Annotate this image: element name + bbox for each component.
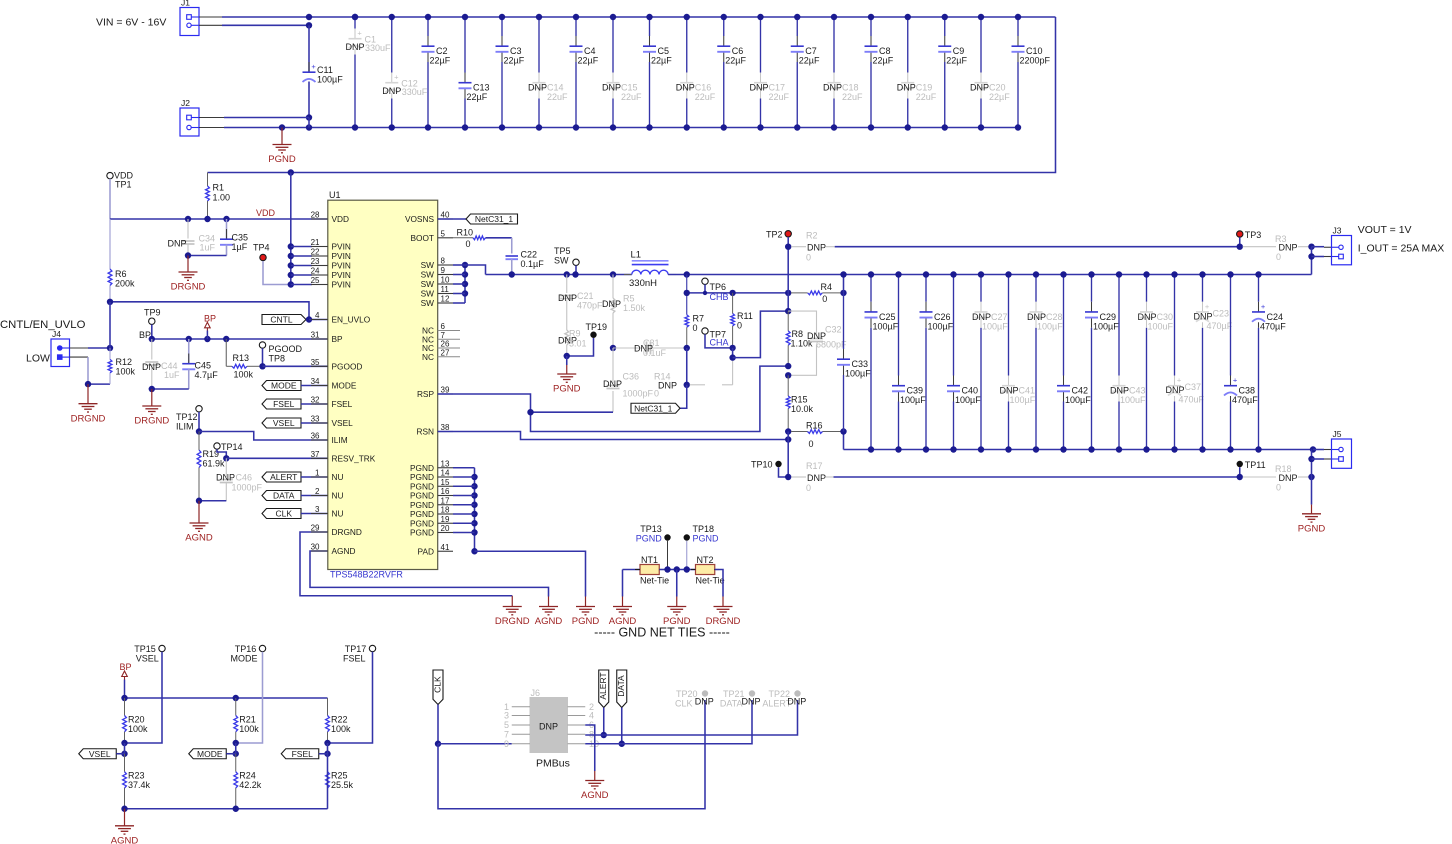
- svg-text:DNP: DNP: [142, 362, 161, 372]
- svg-text:100k: 100k: [331, 724, 351, 734]
- capacitor C17 column: [749, 14, 789, 131]
- svg-text:470uF: 470uF: [1179, 395, 1205, 405]
- capacitor C37 column: [1165, 271, 1204, 452]
- svg-text:TP16: TP16: [235, 644, 257, 654]
- node CHB at TP2 column: [785, 290, 791, 296]
- svg-text:22µF: 22µF: [946, 56, 967, 66]
- svg-text:22uF: 22uF: [695, 92, 716, 102]
- testpoint TP14: [214, 442, 243, 452]
- text LOW: [26, 353, 50, 365]
- svg-text:AGND: AGND: [111, 836, 139, 844]
- svg-text:30: 30: [311, 543, 320, 552]
- capacitor C43 column: [1110, 271, 1146, 452]
- wire SW pin links: [453, 265, 465, 303]
- svg-text:35: 35: [311, 358, 320, 367]
- flag MODE bottom: [189, 749, 236, 759]
- svg-text:100µF: 100µF: [900, 395, 926, 405]
- svg-text:PVIN: PVIN: [332, 261, 351, 271]
- svg-text:PGOOD: PGOOD: [332, 361, 363, 371]
- wire J4 pin1 to R12: [88, 347, 110, 349]
- capacitor C10 column: [1012, 14, 1051, 131]
- svg-text:AGND: AGND: [332, 546, 356, 556]
- wire J3 pin2 link: [1312, 256, 1339, 258]
- svg-text:R10: R10: [457, 228, 474, 238]
- wire divider top rail: [125, 697, 328, 699]
- svg-text:C25: C25: [879, 312, 896, 322]
- svg-text:DATA: DATA: [616, 675, 626, 697]
- svg-text:10: 10: [441, 276, 450, 285]
- svg-text:R11: R11: [737, 311, 753, 321]
- capacitor C15 column: [602, 14, 642, 131]
- svg-text:C35: C35: [232, 233, 249, 243]
- svg-text:C18: C18: [842, 83, 859, 93]
- wire CLK drop: [437, 705, 439, 744]
- node BP R13: [223, 336, 229, 342]
- testpoint TP3: [1237, 230, 1262, 240]
- svg-text:R8: R8: [792, 329, 804, 339]
- svg-text:J4: J4: [52, 329, 61, 339]
- node ALERT: [601, 732, 607, 738]
- svg-text:C37: C37: [1185, 382, 1202, 392]
- wire C44-C45 bottom: [152, 388, 189, 390]
- svg-text:0: 0: [466, 239, 471, 249]
- svg-text:TP5: TP5: [554, 246, 571, 256]
- svg-text:CNTL/EN_UVLO: CNTL/EN_UVLO: [0, 319, 86, 331]
- svg-text:+: +: [1233, 376, 1238, 385]
- svg-text:J6: J6: [531, 688, 541, 698]
- wire TP16 stem: [236, 652, 263, 743]
- svg-text:VSEL: VSEL: [273, 418, 295, 428]
- svg-text:TP2: TP2: [766, 230, 783, 240]
- svg-text:40: 40: [441, 211, 450, 220]
- svg-text:NU: NU: [332, 472, 344, 482]
- svg-text:61.9k: 61.9k: [203, 459, 226, 469]
- wire R12 bottom link: [88, 383, 110, 385]
- svg-text:100k: 100k: [234, 370, 254, 380]
- svg-text:MODE: MODE: [271, 381, 297, 391]
- svg-text:NU: NU: [332, 509, 344, 519]
- svg-text:C30: C30: [1157, 312, 1174, 322]
- svg-text:C17: C17: [769, 83, 786, 93]
- capacitor C9 column: [938, 14, 967, 131]
- svg-text:22µF: 22µF: [873, 56, 894, 66]
- svg-text:22µF: 22µF: [725, 56, 746, 66]
- wire TP14 stem: [217, 449, 226, 458]
- node DATA: [619, 741, 625, 747]
- node NT TP13: [664, 566, 670, 572]
- node R20 bottom: [121, 740, 127, 757]
- svg-text:ALERT: ALERT: [598, 672, 608, 699]
- node R5 column top: [610, 271, 616, 277]
- svg-text:PGND: PGND: [410, 528, 434, 538]
- svg-text:100µF: 100µF: [845, 369, 871, 379]
- svg-text:Net-Tie: Net-Tie: [696, 576, 725, 586]
- svg-text:C16: C16: [695, 83, 712, 93]
- text VOUT: [1358, 224, 1412, 236]
- svg-text:C41: C41: [1019, 386, 1036, 396]
- capacitor C38 column: [1224, 271, 1258, 452]
- svg-text:3: 3: [315, 505, 320, 514]
- connector J1: [180, 0, 199, 36]
- resistor R18 DNP: [1243, 464, 1312, 493]
- node CHB at R7: [684, 290, 690, 296]
- svg-text:C19: C19: [916, 83, 933, 93]
- svg-text:VOSNS: VOSNS: [405, 214, 435, 224]
- ground AGND under R19: [185, 501, 213, 544]
- svg-text:3.01: 3.01: [569, 339, 587, 349]
- svg-text:100k: 100k: [116, 367, 136, 377]
- svg-text:C22: C22: [521, 250, 538, 260]
- svg-text:TP8: TP8: [269, 354, 286, 364]
- svg-text:C27: C27: [991, 312, 1008, 322]
- capacitor C23 column: [1193, 271, 1232, 452]
- svg-text:TP1: TP1: [115, 180, 132, 190]
- capacitor C36 DNP: [603, 348, 654, 412]
- resistor R15: [786, 375, 813, 431]
- svg-text:----- GND NET TIES -----: ----- GND NET TIES -----: [594, 626, 730, 640]
- text GND NET TIES: [594, 626, 730, 640]
- connector J5: [1332, 429, 1352, 468]
- svg-text:TP11: TP11: [1245, 460, 1266, 470]
- resistor R10: [453, 228, 512, 250]
- flag CNTL: [262, 315, 309, 325]
- testpoint TP12: [176, 406, 202, 432]
- svg-text:ALERT: ALERT: [270, 472, 297, 482]
- wire TP17 stem: [328, 652, 373, 743]
- svg-text:6800pF: 6800pF: [816, 340, 847, 350]
- op-amp U1 TPS548B22RVFR: [311, 190, 460, 580]
- svg-text:BP: BP: [204, 314, 216, 324]
- svg-text:CLK: CLK: [275, 509, 292, 519]
- resistor R17 DNP: [791, 461, 833, 493]
- wire J5 column: [1311, 450, 1313, 505]
- svg-text:TP10: TP10: [751, 460, 773, 470]
- svg-text:DNP: DNP: [382, 86, 401, 96]
- wire NetC31 drop: [680, 385, 687, 408]
- svg-text:NetC31_1: NetC31_1: [634, 403, 673, 413]
- svg-text:1.50k: 1.50k: [623, 303, 646, 313]
- svg-text:1µF: 1µF: [232, 242, 248, 252]
- svg-text:38: 38: [441, 423, 450, 432]
- testpoint TP16: [231, 644, 266, 664]
- svg-text:PGND: PGND: [268, 154, 296, 165]
- svg-text:VIN = 6V - 16V: VIN = 6V - 16V: [96, 17, 166, 29]
- wire PGND bus: [453, 468, 478, 555]
- svg-text:32: 32: [311, 396, 320, 405]
- svg-text:I_OUT = 25A MAX: I_OUT = 25A MAX: [1358, 243, 1444, 255]
- svg-text:TP17: TP17: [345, 644, 367, 654]
- node L1 out: [684, 271, 690, 277]
- testpoint TP1: [107, 171, 134, 190]
- svg-text:0: 0: [654, 389, 659, 399]
- svg-text:DNP: DNP: [970, 83, 989, 93]
- testpoint TP10: [751, 460, 782, 470]
- node RSP C36 tap: [527, 409, 533, 415]
- wire SW elbow: [465, 265, 486, 275]
- svg-text:0: 0: [822, 294, 827, 304]
- capacitor C21 DNP: [558, 275, 603, 321]
- node J5 gnd tap: [1308, 474, 1314, 480]
- svg-text:TP19: TP19: [586, 322, 608, 332]
- wire VDD line: [110, 218, 328, 220]
- wire TP13 stem: [667, 541, 669, 570]
- capacitor C41 column: [999, 271, 1035, 452]
- capacitor C34 DNP: [167, 219, 215, 256]
- svg-text:PVIN: PVIN: [332, 280, 351, 290]
- wire TP7 stem: [705, 334, 733, 348]
- svg-text:22uF: 22uF: [769, 92, 790, 102]
- node bottom rail at C11 column: [306, 124, 312, 130]
- ground DRGND under J4: [71, 384, 106, 424]
- wire J4 pin2 stub: [70, 356, 89, 358]
- svg-text:C5: C5: [658, 46, 670, 56]
- text CNTL/EN_UVLO: [0, 319, 86, 331]
- capacitor C4 column: [570, 14, 599, 131]
- svg-text:DNP: DNP: [972, 312, 991, 322]
- ground DRGND net-tie: [706, 597, 741, 628]
- capacitor C13 column: [459, 14, 490, 131]
- svg-text:DNP: DNP: [787, 697, 806, 707]
- svg-text:DRGND: DRGND: [495, 616, 530, 627]
- node RSN junction: [785, 436, 791, 442]
- resistor R6: [108, 219, 135, 302]
- svg-text:C9: C9: [953, 46, 965, 56]
- svg-text:1uF: 1uF: [200, 243, 216, 253]
- wire TP2 column: [787, 237, 789, 311]
- wire PGOOD to pin35: [263, 365, 328, 367]
- node TP3: [1237, 244, 1243, 250]
- svg-text:C21: C21: [577, 291, 594, 301]
- wire TP15 stem: [125, 652, 163, 743]
- node R7 bottom: [684, 345, 690, 351]
- svg-text:DNP: DNP: [749, 83, 768, 93]
- flag MODE: [262, 381, 328, 391]
- connector J2: [180, 98, 199, 136]
- svg-text:37: 37: [311, 450, 320, 459]
- capacitor C11: [303, 62, 344, 88]
- wire AGND net-tie drop: [622, 570, 624, 597]
- svg-text:22uF: 22uF: [621, 92, 642, 102]
- node BP C45: [186, 336, 192, 342]
- resistor R8: [786, 311, 813, 366]
- svg-text:TP6: TP6: [710, 282, 727, 292]
- svg-text:R1: R1: [213, 183, 225, 193]
- svg-text:SW: SW: [421, 270, 435, 280]
- wire TP6 stem: [704, 284, 706, 293]
- svg-text:CHA: CHA: [710, 338, 729, 348]
- svg-text:20: 20: [441, 524, 450, 533]
- wire PVIN bus: [290, 173, 292, 285]
- svg-text:TP12: TP12: [176, 412, 198, 422]
- wire VOUT bottom rail: [844, 449, 1314, 451]
- svg-text:15: 15: [441, 478, 450, 487]
- svg-text:C3: C3: [510, 46, 522, 56]
- svg-text:9: 9: [441, 266, 446, 275]
- svg-text:PGND: PGND: [693, 534, 720, 544]
- node rail to J5: [1310, 446, 1316, 452]
- svg-text:8: 8: [441, 257, 446, 266]
- flag VSEL bottom: [79, 749, 125, 759]
- capacitor C19 column: [897, 14, 937, 131]
- svg-text:DNP: DNP: [1279, 473, 1298, 483]
- resistor R13: [226, 339, 262, 380]
- svg-text:VDD: VDD: [332, 214, 350, 224]
- ground PGND input: [268, 128, 296, 166]
- capacitor C20 column: [970, 14, 1010, 131]
- svg-text:BP: BP: [120, 662, 132, 672]
- node R22 bottom: [324, 740, 330, 757]
- svg-text:R20: R20: [128, 715, 145, 725]
- node J3 pin2 tap: [1308, 253, 1314, 259]
- svg-text:14: 14: [441, 469, 450, 478]
- svg-text:PMBus: PMBus: [536, 758, 570, 770]
- wire BP net: [152, 338, 328, 340]
- svg-text:DNP: DNP: [602, 299, 621, 309]
- svg-text:6: 6: [441, 322, 446, 331]
- svg-text:2200pF: 2200pF: [1020, 56, 1051, 66]
- svg-text:4: 4: [315, 311, 320, 320]
- node AGND R19: [196, 498, 202, 504]
- node VDD at C35: [223, 216, 229, 222]
- wire C36 bottom to RSP: [531, 411, 614, 413]
- svg-text:25.5k: 25.5k: [331, 780, 354, 790]
- testpoint TP9: [139, 308, 161, 341]
- wire VIN top rail: [222, 16, 1056, 18]
- wire CLK to J6 pin9: [438, 743, 512, 745]
- wire TP8 stem: [262, 348, 264, 366]
- svg-text:ILIM: ILIM: [332, 435, 348, 445]
- svg-text:MODE: MODE: [231, 654, 258, 664]
- wire SW line: [486, 274, 632, 276]
- svg-text:41: 41: [441, 543, 450, 552]
- svg-text:DNP: DNP: [807, 473, 826, 483]
- svg-text:SW: SW: [421, 279, 435, 289]
- svg-text:RESV_TRK: RESV_TRK: [332, 453, 376, 463]
- svg-text:J5: J5: [1333, 429, 1342, 439]
- resistor R20: [123, 698, 148, 743]
- svg-text:C36: C36: [623, 372, 640, 382]
- node C11 top: [306, 22, 312, 28]
- testpoint TP15: [134, 644, 165, 664]
- svg-text:CNTL: CNTL: [270, 315, 292, 325]
- svg-text:CLK: CLK: [432, 676, 442, 693]
- svg-text:22uF: 22uF: [547, 92, 568, 102]
- testpoint TP22 DNP: [762, 689, 806, 709]
- node EN_UVLO pin: [306, 316, 312, 322]
- svg-text:33: 33: [311, 415, 320, 424]
- resistor R9 DNP: [558, 320, 587, 356]
- node TP11: [1237, 474, 1243, 480]
- svg-text:470µF: 470µF: [1207, 321, 1233, 331]
- svg-text:PGND: PGND: [553, 384, 581, 395]
- capacitor C42 column: [1057, 271, 1091, 452]
- resistor R7: [685, 275, 704, 349]
- svg-text:TP18: TP18: [693, 524, 715, 534]
- capacitor C16 column: [676, 14, 716, 131]
- wire ALERT drop: [603, 708, 605, 736]
- svg-text:DATA: DATA: [720, 699, 743, 709]
- svg-text:CLK: CLK: [675, 699, 693, 709]
- ground PGND under PAD: [572, 597, 600, 628]
- svg-text:DNP: DNP: [807, 243, 826, 253]
- svg-text:+: +: [357, 29, 362, 38]
- svg-text:13: 13: [441, 459, 450, 468]
- svg-text:22µF: 22µF: [467, 92, 488, 102]
- node R14 left: [684, 382, 690, 388]
- svg-text:22µF: 22µF: [504, 56, 525, 66]
- ground PGND under C21: [553, 356, 581, 395]
- wire VOUT rail: [668, 274, 1311, 276]
- svg-text:U1: U1: [329, 190, 341, 200]
- svg-text:TP15: TP15: [134, 644, 156, 654]
- svg-text:AGND: AGND: [535, 616, 563, 627]
- svg-text:C8: C8: [879, 46, 891, 56]
- wire PGND net-tie drop: [676, 570, 678, 597]
- capacitor C8 column: [865, 14, 894, 131]
- svg-text:1000pF: 1000pF: [623, 389, 654, 399]
- capacitor C5 column: [643, 14, 672, 131]
- node C21 column top: [564, 271, 570, 277]
- wire J4 pin2 down: [87, 357, 89, 384]
- wire R16 to rail: [843, 432, 845, 450]
- svg-text:330uF: 330uF: [402, 87, 428, 97]
- svg-text:AGND: AGND: [185, 533, 213, 544]
- testpoint TP13: [636, 524, 671, 544]
- node NT TP18: [684, 566, 690, 572]
- testpoint TP4: [253, 243, 291, 285]
- flag FSEL: [262, 399, 328, 409]
- svg-text:3: 3: [504, 711, 509, 721]
- node BP TP9: [149, 336, 155, 342]
- node R9 bottom: [564, 353, 570, 359]
- wire J2 pin2 stub: [199, 127, 224, 129]
- resistor R22: [326, 698, 351, 743]
- capacitor C44 DNP: [142, 339, 180, 389]
- capacitor C14 column: [528, 14, 568, 131]
- wire R11 bottom seg: [732, 348, 734, 358]
- svg-text:100k: 100k: [239, 724, 259, 734]
- svg-text:22µF: 22µF: [430, 56, 451, 66]
- node BP symbol: [204, 336, 210, 342]
- wire pin10 row: [585, 700, 752, 744]
- svg-text:DNP: DNP: [658, 381, 677, 391]
- node R8 bottom: [785, 363, 791, 369]
- wire TP11 stem: [1239, 467, 1241, 477]
- svg-text:TP13: TP13: [640, 524, 662, 534]
- svg-text:+: +: [1177, 376, 1182, 385]
- svg-text:R2: R2: [806, 231, 818, 241]
- capacitor C2 column: [422, 14, 451, 131]
- node C11 bottom: [306, 114, 312, 120]
- wire J5 pin1 link: [1313, 449, 1338, 451]
- flag NetC31_1 bottom: [631, 403, 680, 413]
- wire VOUT sense return: [834, 476, 1240, 478]
- connector J3: [1332, 226, 1352, 265]
- svg-text:SW: SW: [421, 289, 435, 299]
- ground DRGND bottom cluster: [495, 596, 530, 627]
- node J4/R12 top: [107, 345, 113, 351]
- svg-text:C26: C26: [934, 312, 951, 322]
- node CHB at R11: [729, 290, 735, 296]
- node J3 sense: [1308, 244, 1314, 250]
- testpoint TP19: [586, 322, 608, 338]
- svg-text:R5: R5: [623, 294, 635, 304]
- svg-text:TPS548B22RVFR: TPS548B22RVFR: [330, 570, 403, 580]
- svg-text:DNP: DNP: [1193, 311, 1212, 321]
- svg-text:DRGND: DRGND: [171, 282, 206, 293]
- wire J2 pin1 stub: [199, 117, 224, 119]
- svg-text:DNP: DNP: [528, 83, 547, 93]
